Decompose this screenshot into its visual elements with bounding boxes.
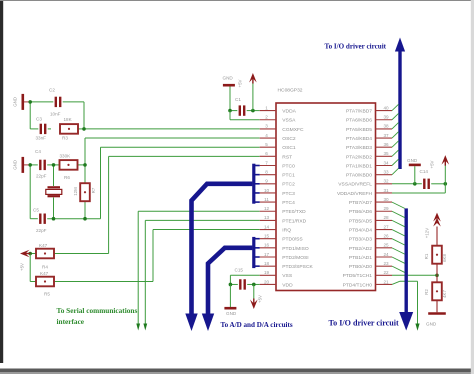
svg-text:PTD1/MISO: PTD1/MISO	[282, 246, 309, 252]
node VSSAD GND tap	[413, 182, 417, 186]
svg-text:21: 21	[383, 279, 389, 284]
svg-text:PTA7/KBD7: PTA7/KBD7	[346, 109, 372, 115]
svg-text:22pF: 22pF	[36, 228, 47, 233]
crystal Q1	[48, 186, 61, 188]
svg-text:23: 23	[383, 261, 389, 266]
resistor R6 330K	[60, 160, 78, 170]
pin 5 OSC1	[260, 146, 276, 148]
wire TXD pin 12 to serial	[138, 210, 260, 212]
bus entry pin 26	[392, 239, 405, 245]
svg-text:PTA0/KBD0: PTA0/KBD0	[346, 173, 372, 179]
svg-text:22pF: 22pF	[36, 174, 47, 179]
svg-text:GND: GND	[13, 160, 18, 170]
svg-text:PTB3/AD3: PTB3/AD3	[349, 237, 372, 243]
svg-text:29: 29	[383, 206, 389, 211]
arrow to A/D right	[202, 314, 214, 332]
svg-text:33: 33	[383, 169, 389, 174]
svg-text:14: 14	[264, 224, 270, 229]
resistor R7 12M	[80, 183, 90, 201]
svg-text:330K: 330K	[60, 153, 72, 158]
svg-text:+5V: +5V	[20, 263, 25, 271]
pin 13 PTE1/RXD	[260, 219, 276, 221]
svg-text:13: 13	[264, 215, 270, 220]
svg-text:+5V: +5V	[258, 295, 263, 303]
svg-text:PTC2: PTC2	[282, 182, 295, 188]
pin 7 PTC0	[260, 165, 276, 167]
supply +5V right	[442, 155, 450, 165]
svg-text:6K8: 6K8	[442, 254, 447, 262]
wire GND2 vertical to bottom row	[29, 165, 31, 219]
wire C2 right vertical	[83, 102, 85, 129]
capacitor C14	[424, 179, 428, 189]
svg-text:PTA4/KBD4: PTA4/KBD4	[346, 136, 372, 142]
wire crystal top row	[30, 164, 38, 166]
pin 8 PTC1	[260, 174, 276, 176]
capacitor C2	[56, 97, 60, 107]
svg-text:20: 20	[264, 279, 270, 284]
pin 11 PTC4	[260, 201, 276, 203]
supply +5V left arrow	[20, 250, 30, 258]
svg-text:PTA3/KBD3: PTA3/KBD3	[346, 145, 372, 151]
wire R7 vertical	[84, 165, 86, 184]
pin 30 PTB7/AD7	[376, 201, 393, 203]
svg-text:OSC2: OSC2	[282, 136, 296, 142]
wire crystal vertical	[53, 165, 55, 186]
node crystal bottom	[52, 217, 56, 221]
op-amp style IC body U1 HC08GP32	[276, 103, 376, 291]
pin 31 VDDAD/VREFH	[376, 192, 393, 194]
svg-text:R1: R1	[424, 253, 429, 259]
pin 27 PTB4/AD4	[376, 229, 393, 231]
pin 33 PTA0/KBD0	[376, 174, 393, 176]
pin 19 VSS	[260, 274, 276, 276]
bus entry pin 38	[392, 123, 399, 129]
svg-text:interface: interface	[57, 317, 85, 326]
bus entry pin 28	[392, 220, 405, 226]
svg-text:GND: GND	[426, 322, 437, 327]
green arrow to A/D	[415, 324, 419, 331]
svg-text:PTD2/MOSI: PTD2/MOSI	[282, 255, 308, 261]
bus entry pin 40	[392, 104, 399, 110]
serial arrow RXD	[143, 324, 147, 331]
pin 21 PTD4/T1CH0	[376, 283, 393, 285]
bus entry pin 37	[392, 132, 399, 138]
node R4 +5V	[28, 252, 32, 256]
svg-text:PTB0/AD0: PTB0/AD0	[349, 264, 372, 270]
svg-text:R3: R3	[62, 135, 68, 140]
wire pin31 VDDAD row	[392, 192, 445, 194]
bus nub pin 11	[255, 201, 260, 203]
svg-text:+5V: +5V	[430, 160, 435, 168]
pin 20 VDD	[260, 283, 276, 285]
capacitor C4	[40, 160, 44, 170]
svg-text:PTA6/KBD6: PTA6/KBD6	[346, 118, 372, 124]
wire VSS pin 19	[230, 274, 259, 276]
svg-text:GND: GND	[226, 311, 237, 316]
svg-text:15: 15	[264, 234, 270, 239]
svg-text:4K7: 4K7	[442, 290, 447, 298]
node VREFH +5V	[444, 182, 448, 186]
bus nub pin 7	[255, 165, 260, 167]
bus entry pin 27	[392, 230, 405, 236]
svg-text:2: 2	[265, 115, 268, 120]
svg-text:26: 26	[383, 234, 389, 239]
svg-text:VSSAD/VREFL: VSSAD/VREFL	[338, 182, 372, 188]
svg-text:17: 17	[264, 252, 270, 257]
page frame decorations	[0, 0, 3, 363]
svg-text:C14: C14	[420, 169, 429, 174]
svg-text:OSC1: OSC1	[282, 145, 296, 151]
svg-text:PTA2/KBD2: PTA2/KBD2	[346, 154, 372, 160]
pin 12 PTE0/TXD	[260, 210, 276, 212]
pin 18 PTD3/SPSCK	[260, 265, 276, 267]
wire C2 row	[30, 101, 53, 103]
svg-text:PTE1/RXD: PTE1/RXD	[282, 218, 306, 224]
bus PTD0-PTD3 bar	[252, 237, 255, 268]
svg-text:38: 38	[383, 124, 389, 129]
svg-text:R4: R4	[42, 264, 48, 269]
ground GND1	[21, 94, 24, 110]
arrow to A/D left	[185, 314, 197, 332]
svg-text:PTA1/KBD1: PTA1/KBD1	[346, 163, 372, 169]
ground GND C15	[224, 307, 236, 310]
pin 37 PTA4/KBD4	[376, 137, 393, 139]
bus entry pin 23	[392, 266, 405, 272]
pin 40 PTA7/KBD7	[376, 110, 393, 112]
bus entry pin 25	[392, 248, 405, 254]
wire R4 row	[30, 253, 36, 255]
arrow to I/O top	[395, 38, 405, 52]
svg-text:22: 22	[383, 270, 389, 275]
bus PTA to I/O driver top	[398, 48, 401, 169]
svg-text:PTB4/AD4: PTB4/AD4	[349, 227, 372, 233]
pin 39 PTA6/KBD6	[376, 119, 393, 121]
svg-text:5: 5	[265, 142, 268, 147]
capacitor C3	[41, 124, 45, 134]
svg-text:PTA5/KBD5: PTA5/KBD5	[346, 127, 372, 133]
node divider	[435, 274, 439, 278]
svg-text:6: 6	[265, 151, 268, 156]
svg-text:36: 36	[383, 142, 389, 147]
svg-text:R5: R5	[44, 292, 50, 297]
svg-text:IRQ: IRQ	[282, 227, 291, 233]
pin 15 PTD0/SS	[260, 238, 276, 240]
svg-text:40: 40	[383, 105, 389, 110]
wire R1 to R2	[436, 264, 438, 283]
node C15 left	[229, 283, 233, 287]
bus entry pin 33	[392, 168, 399, 174]
wire pin 21 to green arrow	[392, 281, 400, 284]
wire top GND to pin1 row	[229, 87, 231, 111]
svg-text:39: 39	[383, 115, 389, 120]
wire +5V C14	[444, 165, 446, 184]
bus nub pin 16	[255, 247, 260, 249]
wire C3-R3 row to pin 3 CGMXFC	[30, 128, 38, 130]
svg-text:PTD4/T1CH0: PTD4/T1CH0	[343, 282, 373, 288]
svg-text:PTB5/AD5: PTB5/AD5	[349, 218, 372, 224]
bus entry pin 39	[392, 113, 399, 119]
svg-text:VDDA: VDDA	[282, 109, 296, 115]
pin 9 PTC2	[260, 183, 276, 185]
svg-text:PTB1/AD1: PTB1/AD1	[349, 255, 372, 261]
supply +5V top middle	[249, 73, 257, 83]
wire GND1 stub to node	[24, 101, 30, 103]
pin 1 VDDA	[260, 110, 276, 112]
pin 4 OSC2	[260, 137, 276, 139]
svg-text:PTD3/SPSCK: PTD3/SPSCK	[282, 264, 313, 270]
svg-text:9: 9	[265, 179, 268, 184]
svg-text:R7: R7	[91, 187, 96, 193]
node C1 left	[228, 109, 232, 113]
bus entry pin 34	[392, 159, 399, 165]
bus entry pin 36	[392, 141, 399, 147]
svg-text:37: 37	[383, 133, 389, 138]
wire R2 to GND	[436, 300, 438, 312]
svg-text:To I/O driver circuit: To I/O driver circuit	[325, 42, 387, 50]
pin 2 VSSA	[260, 119, 276, 121]
svg-text:8: 8	[265, 169, 268, 174]
bus nub pin 17	[255, 256, 260, 258]
svg-text:12M: 12M	[73, 187, 78, 196]
svg-text:VSSA: VSSA	[282, 118, 296, 124]
pin 25 PTB2/AD2	[376, 247, 393, 249]
wire GND14 vertical	[414, 166, 416, 184]
svg-text:33nF: 33nF	[36, 135, 47, 140]
svg-text:+12V: +12V	[425, 228, 430, 238]
wire bottom crystal row	[30, 218, 38, 220]
pin 10 PTC3	[260, 192, 276, 194]
svg-text:C15: C15	[235, 268, 244, 273]
wire GND2 stub	[24, 164, 30, 166]
capacitor C1	[240, 105, 244, 115]
bus entry pin 35	[392, 150, 399, 156]
resistor R5 K47	[36, 277, 54, 287]
svg-text:19: 19	[264, 270, 270, 275]
svg-text:C3: C3	[36, 116, 42, 121]
pin 23 PTB0/AD0	[376, 265, 393, 267]
resistor R3 18K	[60, 124, 78, 134]
bus entry pin 30	[392, 202, 405, 208]
bus nub pin 9	[255, 183, 260, 185]
svg-text:R6: R6	[64, 175, 70, 180]
pin 36 PTA3/KBD3	[376, 146, 393, 148]
node PLL filter	[28, 100, 32, 104]
svg-text:PTC3: PTC3	[282, 191, 295, 197]
wire +12V to R1	[436, 227, 438, 246]
svg-text:32: 32	[383, 179, 389, 184]
pin 6 RST	[260, 155, 276, 157]
svg-text:HC08GP32: HC08GP32	[278, 88, 303, 94]
ground GND2	[21, 157, 24, 173]
svg-text:VDD: VDD	[282, 282, 293, 288]
svg-text:16: 16	[264, 243, 270, 248]
svg-text:C1: C1	[235, 97, 241, 102]
svg-text:12: 12	[264, 206, 270, 211]
bus nub pin 10	[255, 192, 260, 194]
wire C15 right to +5V	[253, 284, 255, 299]
resistor R1 6K8	[432, 246, 442, 264]
node crystal top	[28, 163, 32, 167]
svg-text:PTB7/AD7: PTB7/AD7	[349, 200, 372, 206]
svg-text:3: 3	[265, 124, 268, 129]
svg-text:VDDAD/VREFH: VDDAD/VREFH	[337, 191, 373, 197]
svg-text:24: 24	[383, 252, 389, 257]
pin 32 VSSAD/VREFL	[376, 183, 393, 185]
svg-text:1: 1	[265, 105, 268, 110]
wire pin22 divider row	[392, 274, 437, 276]
svg-text:7: 7	[265, 160, 268, 165]
svg-text:To I/O driver circuit: To I/O driver circuit	[329, 318, 400, 327]
svg-text:GND: GND	[13, 97, 18, 107]
wire C1 row pin 1 VDDA	[230, 110, 237, 112]
svg-text:To A/D and D/A circuits: To A/D and D/A circuits	[221, 321, 293, 329]
node C1 right	[251, 109, 255, 113]
pin 26 PTB3/AD3	[376, 238, 393, 240]
svg-text:+5V: +5V	[238, 79, 243, 87]
ground GND top middle	[223, 84, 235, 87]
svg-text:18K: 18K	[64, 117, 73, 122]
svg-text:28: 28	[383, 215, 389, 220]
pin 24 PTB1/AD1	[376, 256, 393, 258]
svg-text:25: 25	[383, 243, 389, 248]
svg-text:35: 35	[383, 151, 389, 156]
pin 34 PTA1/KBD1	[376, 165, 393, 167]
supply +12V arrow	[433, 213, 441, 222]
svg-text:PTC0: PTC0	[282, 163, 295, 169]
bus nub pin 15	[255, 238, 260, 240]
svg-text:10: 10	[264, 188, 270, 193]
pin 14 IRQ	[260, 229, 276, 231]
capacitor C15	[240, 279, 244, 289]
svg-text:30: 30	[383, 197, 389, 202]
svg-text:27: 27	[383, 224, 389, 229]
svg-text:C5: C5	[33, 208, 39, 213]
svg-text:GND: GND	[407, 158, 418, 163]
svg-text:PTB2/AD2: PTB2/AD2	[349, 246, 372, 252]
resistor R2 4K7	[432, 282, 442, 300]
bus entry pin 24	[392, 257, 405, 263]
wire C15 left to GND	[229, 284, 231, 307]
svg-text:VSS: VSS	[282, 273, 293, 279]
svg-text:K47: K47	[40, 271, 49, 276]
wire IRQ pin 14	[152, 230, 154, 282]
wire +5V down to R5	[29, 254, 31, 282]
svg-text:4: 4	[265, 133, 268, 138]
wire OSC2 from node Q up to pin 4	[84, 138, 86, 165]
bus entry pin 29	[392, 211, 405, 217]
capacitor C5	[40, 214, 44, 224]
svg-text:PTC4: PTC4	[282, 200, 295, 206]
wire +5V arrow to pin1 row	[252, 83, 254, 111]
ground GND R2	[428, 312, 446, 315]
wire pin32 VSSAD row	[392, 183, 422, 185]
pin 3 CGMXFC	[260, 128, 276, 130]
bus PTD tap to A/D arrow	[208, 248, 252, 314]
svg-text:PTD5/T1CH1: PTD5/T1CH1	[343, 273, 373, 279]
wire OSC1 up to pin 5	[100, 147, 102, 219]
node C15 right	[252, 283, 256, 287]
svg-text:PTC1: PTC1	[282, 173, 295, 179]
pin 35 PTA2/KBD2	[376, 155, 393, 157]
svg-text:10nF: 10nF	[50, 111, 61, 116]
arrow to I/O bottom	[399, 312, 413, 331]
svg-text:PTE0/TXD: PTE0/TXD	[282, 209, 306, 215]
wire RST pin 6	[109, 155, 260, 157]
svg-text:34: 34	[383, 160, 389, 165]
wire GND down to pin 2 VSSA	[229, 111, 231, 120]
svg-text:CGMXFC: CGMXFC	[282, 127, 304, 133]
pin 22 PTD5/T1CH1	[376, 274, 393, 276]
bus nub pin 18	[255, 265, 260, 267]
svg-text:C4: C4	[35, 149, 41, 154]
wire GND1 vertical	[29, 102, 31, 129]
ground GND C14	[409, 164, 421, 167]
pin 17 PTD2/MOSI	[260, 256, 276, 258]
wire RXD pin 13 to serial	[145, 219, 259, 221]
svg-text:PTB6/AD6: PTB6/AD6	[349, 209, 372, 215]
svg-text:11: 11	[264, 197, 269, 202]
resistor R4 K47	[36, 249, 54, 259]
pin 16 PTD1/MISO	[260, 247, 276, 249]
svg-text:To Serial communications: To Serial communications	[57, 306, 138, 315]
svg-text:R2: R2	[424, 289, 429, 295]
wire VDD C15 row pin 20	[230, 283, 237, 285]
svg-text:PTD0/SS: PTD0/SS	[282, 237, 303, 243]
svg-text:RST: RST	[282, 154, 292, 160]
bus PTB to I/O driver bottom	[405, 208, 408, 313]
wire R5 row to IRQ riser	[30, 281, 36, 283]
supply +5V bottom middle arrow down	[250, 300, 258, 310]
pin 28 PTB5/AD5	[376, 219, 393, 221]
bus PTC0-PTC4 bar	[252, 164, 255, 204]
pin 29 PTB6/AD6	[376, 210, 393, 212]
svg-text:K47: K47	[39, 243, 48, 248]
bus PTC tap to serial-comm arrow	[192, 184, 253, 314]
bus nub pin 8	[255, 174, 260, 176]
svg-text:C2: C2	[49, 88, 55, 93]
svg-text:31: 31	[383, 188, 389, 193]
serial arrow TXD	[136, 324, 140, 331]
svg-text:GND: GND	[223, 76, 234, 81]
pin 38 PTA5/KBD5	[376, 128, 393, 130]
svg-text:18: 18	[264, 261, 270, 266]
